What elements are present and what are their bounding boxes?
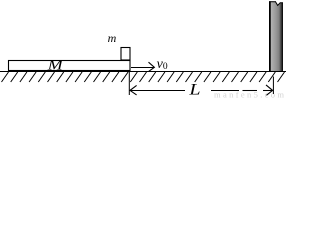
svg-text:M: M <box>47 58 64 74</box>
dimension dashes <box>211 90 272 92</box>
dimension line with left arrow <box>130 85 185 95</box>
dimension left tick <box>128 72 130 95</box>
dimension right arrow <box>266 85 273 95</box>
ground hatching <box>2 72 285 82</box>
ground line <box>0 71 286 73</box>
dimension right tick <box>272 77 274 95</box>
wall <box>269 1 283 71</box>
svg-text:L: L <box>188 82 201 99</box>
small mass m body <box>121 48 130 61</box>
block M body <box>9 61 131 71</box>
svg-text:m: m <box>108 31 117 45</box>
velocity arrow v0 <box>131 62 154 71</box>
